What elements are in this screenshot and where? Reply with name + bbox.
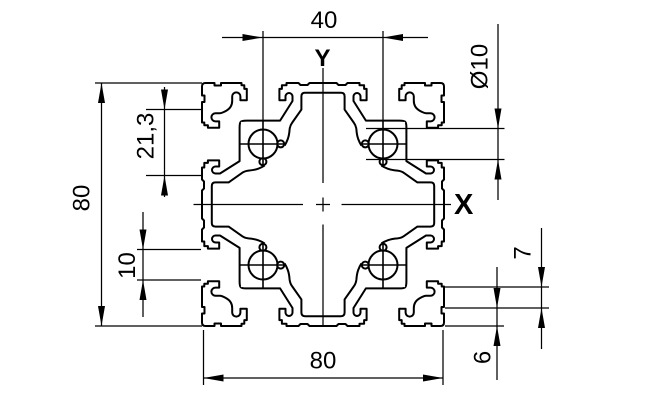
- svg-text:6: 6: [470, 351, 497, 364]
- svg-text:80: 80: [69, 185, 96, 212]
- svg-text:Y: Y: [314, 45, 330, 72]
- svg-text:X: X: [454, 189, 474, 221]
- svg-text:21,3: 21,3: [133, 113, 160, 160]
- svg-text:10: 10: [114, 252, 141, 279]
- svg-text:40: 40: [311, 7, 338, 34]
- svg-text:Ø10: Ø10: [467, 44, 494, 89]
- svg-text:80: 80: [310, 348, 337, 375]
- svg-text:7: 7: [510, 246, 537, 259]
